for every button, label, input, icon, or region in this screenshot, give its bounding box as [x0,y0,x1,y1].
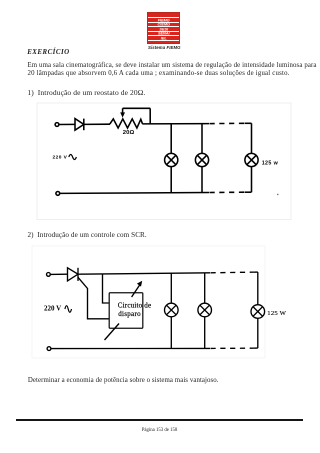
svg-text:125 w: 125 w [262,161,279,167]
svg-text:125 W: 125 W [267,310,286,317]
svg-text:20Ω: 20Ω [123,130,135,136]
svg-text:Circuito de: Circuito de [118,301,152,309]
svg-text:disparo: disparo [118,310,141,318]
svg-text:220 V: 220 V [44,304,61,312]
svg-text:220 V: 220 V [53,155,68,161]
